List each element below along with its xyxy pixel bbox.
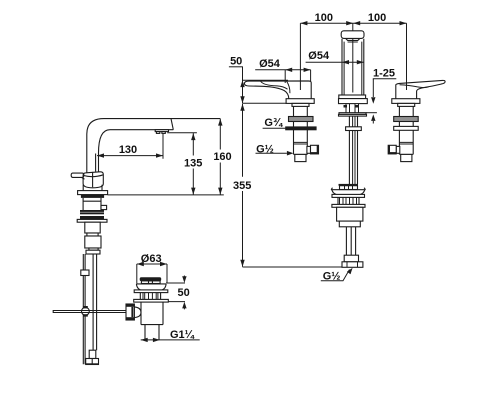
threaded section — [140, 293, 160, 300]
spout inner wall — [99, 130, 111, 172]
dimension 100 + 100 — [300, 12, 406, 90]
center tube nut — [346, 127, 362, 131]
spout column — [342, 39, 364, 95]
right handle lever — [396, 80, 445, 98]
lift rod ball joint — [82, 306, 90, 317]
svg-text:G1¼: G1¼ — [170, 329, 195, 341]
dimension 50 — [229, 56, 288, 104]
body below dome — [83, 185, 102, 191]
dimension 160 — [213, 119, 231, 195]
dimension O54 column — [306, 50, 364, 64]
bottom fitting — [344, 255, 358, 262]
label G3/4 — [263, 117, 286, 129]
lock washer — [134, 299, 169, 302]
pop-up cap — [140, 277, 162, 283]
center drain thread — [338, 197, 359, 204]
center drain bell — [331, 188, 365, 195]
svg-text:G¾: G¾ — [264, 117, 283, 129]
center drain cylinder — [337, 207, 363, 227]
drain bell flange — [136, 284, 166, 290]
dimension 50 drain — [166, 276, 190, 310]
bottom flange — [342, 262, 363, 268]
dimension O54 left handle — [255, 58, 310, 83]
supply hose fitting — [86, 350, 99, 365]
spout end edge — [171, 119, 173, 130]
label G1/2 bottom — [321, 268, 353, 283]
spout centerline — [352, 23, 354, 92]
left handle escutcheon — [286, 99, 314, 104]
cartridge dome — [83, 172, 103, 188]
svg-text:160: 160 — [213, 151, 231, 163]
right valve stack — [388, 103, 418, 161]
dimension 130 — [97, 134, 163, 159]
aerator — [155, 130, 168, 134]
spout underside — [110, 129, 173, 131]
handle lever — [71, 173, 84, 179]
dimension O63 — [137, 253, 167, 284]
center clamp flange — [339, 113, 367, 116]
step — [87, 233, 98, 236]
lift rod — [81, 254, 89, 364]
nut band 1 — [80, 210, 104, 214]
supply tube — [93, 254, 97, 350]
tailpipe — [145, 325, 159, 340]
spout escutcheon — [339, 99, 368, 104]
lower block — [85, 236, 101, 248]
center tube — [349, 116, 357, 184]
drain body — [141, 302, 163, 325]
spout top line + extension — [104, 118, 220, 120]
shank — [83, 198, 107, 210]
spout outer wall — [87, 119, 104, 173]
center drain washer 2 — [332, 204, 365, 207]
body tube — [85, 222, 100, 233]
pivot ball bulge — [134, 307, 141, 318]
left bottom block — [295, 154, 306, 161]
left washer 2 — [285, 126, 316, 130]
dark nut below flange — [81, 195, 104, 198]
svg-text:50: 50 — [230, 56, 242, 68]
dimension G1 1/4 — [141, 329, 200, 342]
center drain washer 1 — [332, 194, 365, 197]
left valve stack — [292, 103, 309, 154]
left handle lever — [244, 81, 311, 99]
deck line — [108, 194, 224, 196]
svg-text:355: 355 — [233, 180, 251, 192]
center shank below escutcheon — [344, 104, 359, 113]
center tailpipe — [346, 227, 355, 255]
spout riser line — [95, 154, 97, 172]
deck flange — [78, 191, 108, 195]
svg-text:135: 135 — [184, 157, 202, 169]
right handle escutcheon — [392, 99, 420, 104]
dimension 355 — [233, 104, 363, 267]
spout collar — [339, 95, 366, 99]
svg-text:130: 130 — [119, 144, 137, 156]
washer — [77, 219, 107, 222]
spout cap — [341, 31, 364, 42]
label G1/2 left — [256, 143, 294, 155]
dimension 1-25 — [366, 67, 396, 123]
center drain nut bar — [339, 184, 359, 190]
dimension 135 — [184, 133, 202, 195]
svg-text:100: 100 — [315, 12, 333, 24]
svg-text:Ø63: Ø63 — [141, 253, 162, 265]
svg-text:100: 100 — [368, 12, 386, 24]
narrow neck — [89, 248, 98, 250]
bottom cap — [86, 250, 100, 254]
nut band 2 — [80, 216, 104, 219]
left side port — [307, 145, 319, 154]
horizontal pop-up rod — [53, 310, 126, 313]
svg-text:Ø54: Ø54 — [259, 58, 281, 70]
extension line from aerator — [167, 132, 197, 134]
svg-text:50: 50 — [177, 287, 189, 299]
svg-text:Ø54: Ø54 — [308, 50, 330, 62]
svg-text:1-25: 1-25 — [373, 67, 395, 79]
flange washer — [134, 290, 168, 293]
pivot nut — [126, 304, 134, 320]
left washer 1 — [289, 117, 314, 122]
